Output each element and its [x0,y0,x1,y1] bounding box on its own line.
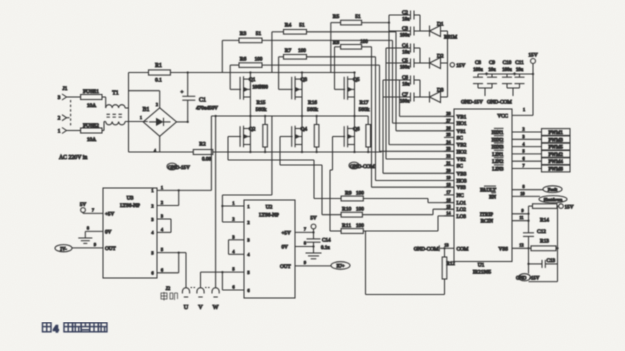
svg-text:Q5: Q5 [353,77,360,83]
svg-text:D2: D2 [437,54,444,60]
pin 19 HO3 [444,175,467,184]
svg-text:2: 2 [161,200,163,205]
svg-text:GND-COM: GND-COM [487,100,512,106]
5V port (U3) [80,202,115,217]
pin 3 U2 [229,234,251,242]
capacitor C12 [523,229,546,248]
svg-text:J2: J2 [166,287,171,292]
svg-text:NC: NC [457,193,465,199]
svg-text:1: 1 [523,107,525,112]
svg-text:10u: 10u [488,68,496,73]
svg-text:IU+: IU+ [336,265,344,270]
pin label EN [489,193,496,201]
svg-text:T1: T1 [112,91,119,97]
resistor R16 560k [307,100,319,152]
5V port (U2) [282,216,317,239]
svg-text:100u: 100u [400,34,410,39]
svg-text:EN: EN [489,194,496,200]
wire: ITRIP/RCIN [512,206,530,233]
ground (U3 0V) [78,226,111,244]
svg-text:R15: R15 [257,100,266,106]
pin label FAULT [480,186,497,194]
wire: VCC pin 1 [512,107,533,115]
svg-text:U: U [184,304,189,311]
wire: Q2 gate to R9 [228,137,341,199]
svg-text:15V: 15V [565,204,574,210]
GND-15V power port (left) [167,163,190,171]
node PWM5 [512,141,570,150]
svg-text:C13: C13 [547,258,556,264]
svg-text:15V: 15V [456,63,465,69]
pin 22 VS2 [444,154,466,163]
capacitor C4 10u [386,43,420,56]
pin label LIN2 [492,158,504,166]
svg-text:100: 100 [255,57,263,63]
transistor Q1 [240,76,268,100]
svg-text:10: 10 [520,191,524,196]
wire: U2 pin brackets [221,205,228,290]
resistor R4 51 [272,23,396,73]
wire: phase U drop to sensor U3 [179,116,212,190]
svg-text:0.1: 0.1 [155,78,162,84]
svg-text:560k: 560k [256,107,267,113]
resistor R14 (to 15V) [529,204,574,224]
svg-text:R17: R17 [360,100,369,106]
svg-text:27: 27 [446,118,450,123]
svg-text:LIN3: LIN3 [492,167,504,173]
pin 3 U3 [151,214,171,222]
pin 18 VS3 [444,182,466,191]
svg-text:15V: 15V [528,53,537,59]
pin label RCIN [481,219,494,225]
svg-text:C1: C1 [199,98,206,104]
svg-text:C9: C9 [489,60,495,66]
svg-text:Shutdown: Shutdown [544,197,563,202]
pin 5 U3 [151,247,178,255]
pin label VCC [497,113,508,119]
svg-text:Q4: Q4 [301,126,308,132]
svg-text:3: 3 [58,95,61,101]
svg-text:22: 22 [446,154,450,159]
svg-text:1: 1 [58,129,61,135]
resistor R9 100 [341,191,454,203]
svg-text:HO3: HO3 [457,179,467,185]
pin 27 HO1 [444,118,467,127]
svg-text:100u: 100u [473,68,483,73]
svg-text:LTS6-NP: LTS6-NP [120,203,140,209]
svg-text:17: 17 [446,190,450,195]
svg-text:100: 100 [356,207,364,213]
svg-text:B1: B1 [143,107,150,113]
svg-text:U2: U2 [266,205,273,211]
svg-text:GND-COM: GND-COM [414,247,439,253]
wire: decoupling rail bottom + grounds [478,88,520,96]
connector J2 motor [161,287,219,311]
wire: U3 out to J2 U [179,253,186,288]
svg-text:PWM6: PWM6 [548,168,563,173]
svg-text:LIN1: LIN1 [492,152,504,158]
svg-text:R2: R2 [199,142,206,148]
svg-text:PWM3: PWM3 [548,138,563,143]
transformer T1 [106,91,148,125]
diode D1 [420,22,458,41]
svg-text:51: 51 [299,23,305,29]
svg-text:SC: SC [457,164,464,170]
svg-text:20: 20 [446,168,450,173]
transistor Q2 [240,126,256,148]
svg-text:SC: SC [457,135,464,141]
resistor R15 560k [256,100,268,152]
resistor R7 100 [279,48,376,89]
svg-text:10u: 10u [402,83,410,88]
svg-text:VCC: VCC [497,113,508,119]
svg-text:C11: C11 [515,60,524,66]
svg-text:-15V: -15V [530,277,540,282]
capacitor C7 100u [383,92,420,105]
wire: bridge outputs [160,121,189,152]
svg-text:560k: 560k [359,107,370,113]
pin 5 U2 [222,267,250,275]
15V supply terminal [528,53,537,116]
capacitor C1 470u450V [181,73,219,122]
svg-text:VB1: VB1 [457,114,467,120]
node Shutdown input [512,191,567,203]
svg-text:28: 28 [446,111,450,116]
svg-text:100N60: 100N60 [252,85,268,90]
diode D3 [420,88,448,103]
svg-text:+: + [485,71,488,76]
node IV- output [55,242,116,252]
pin 2 U3 [151,200,178,208]
svg-text:Q2: Q2 [249,126,256,132]
svg-text:21: 21 [446,160,450,165]
pin label HIN3 [492,143,504,151]
pin 21 SC [444,160,463,169]
svg-text:RS1M: RS1M [444,36,458,41]
svg-text:+: + [513,71,516,76]
resistor R8 100 [333,39,372,89]
svg-text:8: 8 [522,184,524,189]
wire: Q6 gate to R11 [330,137,345,232]
capacitor C11 10u [515,60,525,88]
svg-text:11: 11 [519,215,523,220]
resistor R6 100 [230,57,379,90]
svg-text:+5V: +5V [105,211,115,217]
svg-text:3: 3 [522,134,524,139]
svg-text:6: 6 [522,156,524,161]
svg-text:1: 1 [151,188,153,193]
wire: leg 2 drain/source vertical [301,73,303,153]
svg-text:R6: R6 [240,57,247,63]
svg-text:LTS6-NP: LTS6-NP [259,213,279,219]
capacitor C14 0.1u [307,238,332,254]
capacitor C3 100u [389,26,420,39]
svg-text:10A: 10A [87,103,96,109]
fuse FUSE2 10A [70,122,106,144]
svg-text:R12: R12 [447,262,456,267]
pin 6 U2 [222,285,250,293]
wire: right return loop [529,206,558,282]
svg-text:51: 51 [355,14,361,20]
pin 24 VB2 [444,139,467,148]
wire: DC+ top rail [249,71,355,73]
resistor R1 0.1 [129,63,251,84]
pin 4 U3 [151,227,171,235]
svg-text:COM: COM [457,246,469,252]
svg-text:16: 16 [446,197,450,202]
svg-text:VSS: VSS [498,246,508,252]
svg-text:+: + [181,90,184,96]
wire: phase bus [211,115,368,117]
pin 25 SC [444,132,463,141]
svg-text:51: 51 [256,31,262,37]
pin 17 NC [444,190,464,199]
svg-text:HO1: HO1 [457,121,467,127]
svg-text:1: 1 [247,204,249,209]
svg-text:10u: 10u [402,18,410,23]
svg-text:V: V [198,304,203,311]
svg-text:5V: 5V [310,216,317,222]
svg-text:D1: D1 [437,22,444,28]
wire: phase V drop to sensor U2 [222,116,272,206]
svg-text:U1: U1 [478,263,485,269]
svg-text:100: 100 [298,48,306,54]
svg-text:25: 25 [446,132,450,137]
svg-text:LO1: LO1 [457,201,467,207]
resistor R2 0.08 [129,142,213,163]
svg-text:1: 1 [161,185,163,190]
svg-text:R14: R14 [540,218,549,224]
capacitor C8 100u [473,60,483,88]
svg-text:9: 9 [521,208,523,213]
svg-text:R8: R8 [333,40,340,46]
svg-text:PWM5: PWM5 [548,146,563,151]
transistor Q3 [292,76,308,100]
node PWM2 [512,149,570,158]
svg-text:AC 220V in: AC 220V in [59,155,87,161]
svg-text:OUT: OUT [280,264,291,270]
svg-text:U3: U3 [127,196,134,202]
svg-text:100u: 100u [400,100,410,105]
pin 23 HO2 [444,146,467,155]
pin 15 LO2 [444,204,466,213]
svg-text:2: 2 [58,116,61,122]
svg-text:RCIN: RCIN [481,219,494,225]
svg-text:R5: R5 [333,14,340,20]
svg-text:GND: GND [516,277,527,282]
svg-text:HIN1: HIN1 [492,130,504,136]
svg-text:R3: R3 [240,31,247,37]
GND-15V port (IC) [516,274,540,282]
svg-text:LO2: LO2 [457,207,467,213]
svg-text:4: 4 [53,323,59,334]
resistor R11 100 [341,216,454,234]
pin label HIN2 [492,136,504,144]
pin 6 U3 [151,267,178,275]
GND-COM power port (mid) [349,162,375,170]
svg-text:10A: 10A [87,137,96,143]
svg-text:R16: R16 [308,100,317,106]
transistor Q4 [292,126,308,148]
svg-text:10u: 10u [402,51,410,56]
capacitor C2 10u [389,10,420,23]
svg-text:R10: R10 [342,207,352,213]
capacitor C13 [527,248,557,268]
op-amp U3 LTS6-NP body [103,188,157,278]
svg-text:R13: R13 [540,239,549,245]
svg-text:PWM2: PWM2 [548,153,563,158]
node PWM1 [512,127,570,136]
svg-text:J1: J1 [63,86,68,92]
resistor R5 51 [331,14,390,73]
diode D2 [420,54,448,69]
pin label LIN1 [492,150,504,158]
wire: diode cathode bus / 15V tap [448,31,466,97]
svg-text:560k: 560k [307,107,318,113]
svg-text:13: 13 [444,242,448,247]
fuse FUSE1 10A [70,89,106,109]
svg-text:W: W [213,304,219,311]
svg-text:C10: C10 [503,60,512,66]
svg-text:0V: 0V [105,229,112,235]
svg-text:10u: 10u [516,68,524,73]
node PWM3 [512,134,570,143]
svg-text:R7: R7 [285,48,292,54]
resistor R17 560k [359,100,371,152]
svg-text:R1: R1 [155,63,162,69]
wire: cap pair verticals [383,15,420,97]
capacitor C9 10u [487,60,497,88]
svg-text:IR21365: IR21365 [473,270,492,276]
svg-text:12: 12 [519,242,523,247]
wire: phase W drop to J2 [215,116,217,288]
svg-text:VB3: VB3 [457,171,467,177]
svg-text:OUT: OUT [105,246,116,252]
svg-text:1: 1 [140,116,142,120]
wire: U3 pin brackets [171,189,180,273]
node IU+ output [280,260,350,270]
svg-text:7: 7 [522,163,524,168]
svg-text:470u450V: 470u450V [196,106,218,112]
svg-text:VS3: VS3 [457,185,467,191]
svg-text:+5V: +5V [282,230,292,236]
svg-text:HO2: HO2 [457,149,467,155]
connector J1 [58,86,71,135]
wire: bridge loop left/top [129,73,160,153]
pin label HIN1 [492,128,504,136]
svg-text:Q6: Q6 [353,126,360,132]
pin 13 COM [440,242,469,252]
svg-text:2: 2 [232,217,234,222]
svg-text:0.1u: 0.1u [321,246,330,251]
capacitor C6 10u [383,75,420,88]
svg-text:2: 2 [522,127,524,132]
pin 20 VB3 [444,168,467,177]
transistor Q6 [344,126,360,148]
pin 28 VB1 [444,111,467,120]
svg-text:ITRIP: ITRIP [480,212,493,218]
svg-text:Q3: Q3 [301,77,308,83]
pin 2 U2 [222,217,249,225]
svg-text:LIN2: LIN2 [492,159,504,165]
pin label VSS [498,246,508,252]
svg-text:5: 5 [522,149,524,154]
svg-text:VB2: VB2 [457,143,467,149]
capacitor C5 100u [386,58,420,71]
svg-text:2: 2 [151,203,153,208]
pin label ITRIP [480,212,493,218]
node PWM4 [512,156,570,165]
caption: figure 4 driver circuit [43,323,107,334]
svg-text:0V: 0V [282,245,289,251]
pin 26 VS1 [444,126,466,135]
svg-text:Q1: Q1 [249,77,256,83]
svg-text:R4: R4 [285,23,292,29]
svg-text:C14: C14 [322,238,331,244]
wire: VSS pin 12 [512,242,529,248]
svg-text:2: 2 [247,220,249,225]
svg-text:D3: D3 [437,88,444,94]
pin 16 LO1 [444,197,466,206]
svg-text:C12: C12 [537,229,546,235]
node Fault output [512,184,562,192]
pin 4 U2 [229,249,251,257]
svg-text:2: 2 [156,103,158,107]
svg-text:19: 19 [446,175,450,180]
wire: GND-COM bottom bus [213,151,382,153]
resistor R13 [527,239,558,251]
wire: signal bundle to driver IC [372,31,455,187]
wire: U2 out to J2 V [201,272,223,288]
pin 1 U3 [151,185,178,193]
svg-text:26: 26 [446,126,450,131]
svg-text:18: 18 [446,182,450,187]
svg-text:0.08: 0.08 [202,157,211,163]
svg-text:VS2: VS2 [457,157,467,163]
transistor Q5 [344,76,360,100]
svg-text:100u: 100u [502,68,512,73]
pin 1 U2 [222,201,249,209]
svg-text:HIN3: HIN3 [492,145,504,151]
bridge rectifier B1 [140,103,176,153]
op-amp U1 IR21365 body [454,109,512,276]
svg-text:GND-15V: GND-15V [461,100,483,106]
pin 14 LO3 [444,211,466,220]
ground (U2 0V) [282,241,322,259]
pin label LIN3 [492,165,504,173]
capacitor C10 100u [502,60,512,88]
resistor R12 [366,231,456,295]
svg-text:15: 15 [446,204,450,209]
svg-text:1: 1 [232,201,234,206]
svg-text:LO3: LO3 [457,214,467,220]
wire: leg 1 drain/source vertical [249,73,251,153]
svg-text:C8: C8 [475,60,481,66]
svg-text:PWM1: PWM1 [548,131,563,136]
wire: decoupling rail top [478,73,533,75]
svg-text:PWM4: PWM4 [548,160,563,165]
wire: leg 3 drain/source vertical [354,73,356,153]
GND-COM port (COM pin) [414,245,446,252]
resistor R10 100 [341,207,454,218]
svg-text:GND-15V: GND-15V [168,165,190,171]
svg-text:HIN2: HIN2 [492,137,504,143]
op-amp U2 LTS6-NP body [244,200,295,298]
svg-text:Fault: Fault [548,187,558,192]
resistor R3 51 [222,31,392,73]
node PWM6 [512,163,570,172]
svg-text:VS1: VS1 [457,129,467,135]
